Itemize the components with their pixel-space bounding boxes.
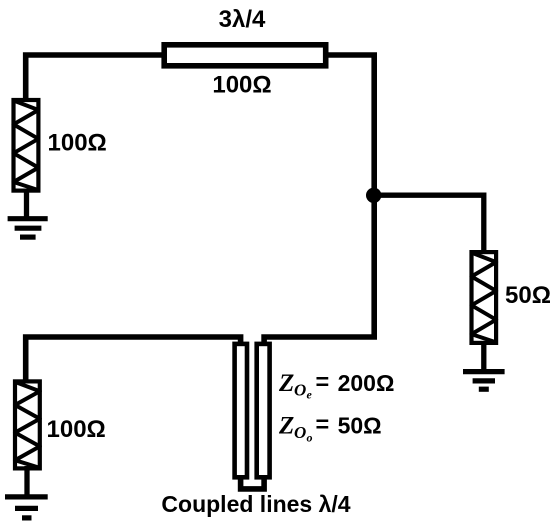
svg-text:100Ω: 100Ω: [48, 130, 107, 157]
svg-text:200Ω: 200Ω: [338, 370, 395, 396]
resistor R 100Ω top-left (box with zigzag): [14, 100, 39, 191]
coupled line conductor (right): [257, 344, 270, 477]
svg-text:50Ω: 50Ω: [338, 412, 382, 438]
transmission line 3λ/4 100Ω (rectangle): [164, 45, 326, 66]
wire: port1 feed, top-left vertical + horizontal to 3λ/4 line: [26, 55, 165, 101]
label: Z_Oo = 50Ω: [278, 411, 382, 445]
wire: strap connecting coupled lines at bottom: [241, 476, 265, 489]
resistor R 100Ω bottom-left (box with zigzag): [15, 381, 40, 468]
coupled line conductor (left): [235, 344, 247, 477]
svg-text:O: O: [294, 381, 306, 400]
wire: bottom-left resistor to ground: [24, 466, 29, 497]
svg-text:50Ω: 50Ω: [505, 282, 550, 309]
node junction dot: [366, 188, 381, 203]
svg-text:Z: Z: [278, 370, 294, 397]
label: Z_Oe = 200Ω: [278, 368, 394, 401]
wire: from 3λ/4 line right end, down right side to bottom, into right coupled line: [264, 55, 374, 346]
svg-text:3λ/4: 3λ/4: [219, 6, 266, 33]
svg-text:Coupled lines λ/4: Coupled lines λ/4: [161, 491, 350, 517]
ground (bottom-left): [5, 497, 48, 518]
svg-text:=: =: [316, 368, 330, 394]
wire: 50Ω resistor to ground: [481, 341, 486, 372]
svg-text:=: =: [316, 411, 330, 437]
wire: top-left resistor to ground: [24, 190, 29, 219]
ground (right): [463, 372, 505, 390]
svg-text:100Ω: 100Ω: [47, 416, 106, 443]
svg-text:100Ω: 100Ω: [212, 72, 271, 99]
svg-text:e: e: [307, 388, 313, 402]
wire: from node to 50Ω load, right then down: [374, 195, 484, 254]
ground (top-left): [8, 219, 48, 237]
wire: port2 feed bottom-left, vertical + horizontal into left coupled line: [26, 337, 241, 383]
svg-text:O: O: [294, 423, 306, 442]
svg-text:Z: Z: [278, 412, 294, 439]
svg-text:o: o: [307, 431, 313, 445]
resistor R 50Ω right (box with zigzag): [472, 252, 497, 343]
